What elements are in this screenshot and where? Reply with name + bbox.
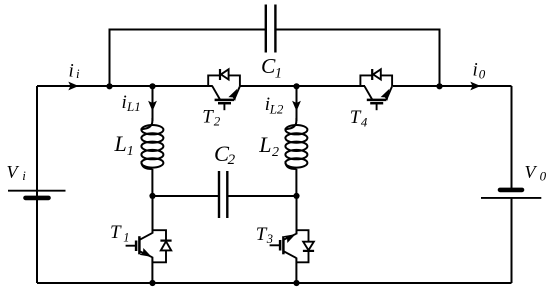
label Vi (7, 162, 27, 183)
svg-text:3: 3 (266, 232, 273, 246)
node: L1 / C2 / T1 junction (149, 193, 155, 199)
label T4 (350, 107, 368, 129)
svg-text:C: C (261, 54, 276, 78)
wire: right edge upper (to V0) (511, 86, 513, 190)
svg-text:i: i (22, 168, 26, 183)
svg-text:2: 2 (272, 145, 279, 160)
wire: right edge lower (from V0) (511, 198, 513, 283)
svg-text:4: 4 (361, 114, 368, 129)
inductor L2 (285, 118, 307, 169)
capacitor C2 (219, 171, 227, 218)
label i_L2 (265, 94, 284, 116)
transistor T2 (IGBT with antiparallel diode) (208, 69, 240, 110)
svg-text:2: 2 (228, 152, 236, 168)
capacitor C1 (266, 5, 276, 53)
battery V0 (481, 190, 541, 198)
svg-text:T: T (350, 107, 362, 128)
node: T3 / bottom rail (293, 280, 299, 286)
current arrow i_i (68, 82, 78, 91)
battery Vi (8, 191, 66, 198)
svg-text:2: 2 (214, 114, 221, 129)
wire: main bus right segment (393, 85, 512, 87)
svg-text:1: 1 (127, 144, 134, 159)
label V0 (525, 162, 547, 183)
current arrow i_L1 (148, 101, 157, 112)
svg-text:T: T (110, 222, 122, 243)
node: main bus / top rail left (106, 83, 112, 89)
wire: bottom rail (37, 282, 512, 284)
svg-text:i: i (76, 66, 80, 81)
current arrow i_0 (470, 82, 480, 91)
svg-text:i: i (122, 92, 127, 113)
label C1 (261, 54, 282, 82)
wire: L2 top lead (296, 86, 298, 121)
wire: C2 left lead (153, 195, 219, 197)
wire: T1 top lead (152, 196, 154, 234)
node: main bus / L1 branch (149, 83, 155, 89)
svg-text:L: L (114, 131, 127, 156)
wire: main bus middle segment (240, 85, 365, 87)
label i_i (69, 61, 81, 82)
wire: left edge lower (from Vi) (36, 198, 38, 283)
wire: T3 bottom lead (295, 258, 297, 283)
svg-text:0: 0 (540, 169, 547, 184)
wire: L2 bottom lead (295, 169, 297, 196)
wire: L1 bottom lead (151, 169, 153, 196)
transistor T1 (IGBT with antiparallel diode) (126, 230, 172, 262)
wire: left edge upper (to Vi) (36, 86, 38, 197)
node: T1 / bottom rail (149, 280, 155, 286)
svg-text:T: T (202, 107, 214, 128)
inductor L1 (141, 118, 163, 169)
wire: top rail right (from C1 across and down) (275, 30, 440, 87)
label T1 (110, 222, 129, 244)
svg-text:i: i (473, 60, 478, 81)
svg-text:0: 0 (479, 66, 486, 81)
label i_0 (473, 60, 486, 82)
svg-text:V: V (7, 162, 20, 182)
wire: L1 top lead (152, 86, 154, 121)
svg-text:L2: L2 (269, 101, 284, 116)
wire: T1 bottom lead (151, 257, 153, 283)
label C2 (214, 141, 236, 168)
node: L2 / C2 / T3 junction (293, 193, 299, 199)
label T2 (202, 107, 221, 129)
transistor T4 (IGBT with antiparallel diode) (360, 69, 392, 110)
svg-text:V: V (525, 162, 538, 182)
wire: top rail left (up and across to C1) (110, 30, 267, 87)
label L1 (114, 131, 134, 159)
svg-text:L: L (258, 132, 271, 157)
label T3 (256, 224, 273, 246)
svg-text:i: i (69, 61, 74, 82)
node: main bus / L2 branch (293, 83, 299, 89)
svg-text:1: 1 (123, 230, 129, 244)
transistor T3 (IGBT with antiparallel diode) (270, 230, 315, 262)
wire: C2 right lead (228, 195, 296, 197)
wire: T3 top lead (296, 196, 298, 234)
label i_L1 (122, 92, 141, 114)
svg-text:1: 1 (275, 66, 282, 82)
wire: main bus left segment (37, 85, 213, 87)
node: main bus / top rail right (436, 83, 442, 89)
svg-text:L1: L1 (126, 99, 141, 114)
current arrow i_L2 (292, 101, 301, 112)
label L2 (258, 132, 279, 160)
